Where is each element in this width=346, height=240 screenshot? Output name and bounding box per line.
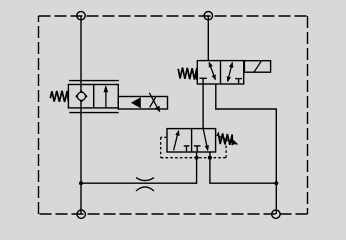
junction dot pilot right (208, 156, 212, 160)
left valve V1: proportional extra line bottom (69, 112, 118, 114)
solenoid valve V2: left cell flow arrow (209, 63, 215, 80)
pilot box: solid triangle pointing left (131, 97, 141, 108)
wire: middle valve left bottom port down and left through throttle (81, 152, 197, 183)
middle valve V3: pilot dashed lines (161, 137, 226, 157)
port circle top-right (204, 12, 212, 20)
wire: solenoid valve right bottom port, right and down to bottom-right port (216, 84, 276, 214)
middle valve V3: spring right (217, 134, 233, 146)
middle valve V3: left cell flow arrow (174, 132, 179, 151)
solenoid valve V2: solenoid box (244, 61, 270, 72)
junction dot pilot left (195, 156, 199, 160)
middle valve V3: adjust arrow (220, 137, 234, 143)
middle valve V3: right cell flow arrow (203, 129, 207, 146)
left valve V1: spring left (50, 91, 68, 102)
wire P: left vertical from top port through left valve to bottom port (80, 16, 82, 214)
solenoid valve V2: right cell flow arrow (228, 62, 233, 81)
junction dot right (274, 181, 278, 185)
junction dot left (79, 181, 83, 185)
left valve V1: ball seat diamond (75, 90, 87, 102)
middle valve V3: body (167, 129, 216, 152)
wire: top-right port down to solenoid valve (207, 16, 209, 61)
left valve V1: ball circle (77, 92, 85, 100)
pilot box: cross line (150, 96, 157, 108)
wire: solenoid valve left bottom port to middle valve top (202, 84, 204, 129)
left valve V1: cell divider (93, 85, 95, 108)
solenoid valve V2: solenoid slash (254, 61, 261, 71)
left valve V1: body (68, 85, 118, 108)
port circle bottom-right (272, 210, 280, 218)
solenoid valve V2: body (197, 61, 243, 84)
middle valve V3: right cell T blocked port (194, 145, 201, 147)
middle valve V3: left cell T blocked port (184, 145, 190, 147)
solenoid valve V2: right cell T blocked port (235, 78, 242, 80)
left valve V1: cell2 arrow shaft (105, 86, 107, 108)
port circle bottom-left (77, 210, 85, 218)
solenoid valve V2: cell divider (220, 61, 222, 84)
pilot box: adjust arrow head (155, 106, 160, 113)
left valve V1: proportional extra line top (69, 80, 119, 82)
left valve V1: cell2 arrow head (104, 85, 109, 92)
throttle restriction (136, 178, 154, 181)
port circle top-left (77, 12, 85, 20)
pilot box: adjust arrow shaft (149, 93, 158, 109)
enclosure dashed border (39, 16, 308, 214)
solenoid valve V2: left cell T blocked port (199, 77, 206, 79)
pilot box right of V1 (118, 97, 167, 110)
solenoid valve V2: spring left (178, 68, 197, 80)
middle valve V3: cell divider (191, 129, 193, 152)
wire: middle valve right bottom port down and right (210, 152, 276, 183)
